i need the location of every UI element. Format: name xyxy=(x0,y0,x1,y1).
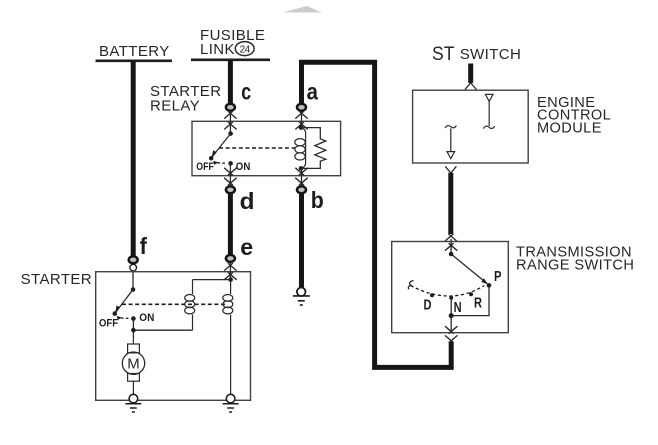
relay actuation dashed line xyxy=(219,147,296,149)
engine control module label xyxy=(537,95,611,137)
starter motor junction xyxy=(131,328,136,333)
starter actuation dashed line xyxy=(122,303,225,305)
trs switch arm to P xyxy=(451,254,491,288)
trs switch pivot xyxy=(449,239,454,256)
trs connector chevron below top edge xyxy=(445,243,457,251)
trs arc squiggle end xyxy=(408,281,413,290)
trs dashed arc xyxy=(411,286,485,297)
starter ON contact xyxy=(131,316,136,330)
relay ON contact xyxy=(228,161,233,185)
starter coil ground xyxy=(223,394,239,412)
trs wire P to N junction xyxy=(451,285,489,315)
st switch label xyxy=(432,44,521,65)
svg-text:R: R xyxy=(474,295,482,311)
wire d to e xyxy=(228,193,233,256)
battery bus bar xyxy=(96,59,173,62)
starter right coil xyxy=(223,280,233,395)
starter motor xyxy=(122,330,144,394)
trs R contact xyxy=(469,292,473,296)
svg-text:d: d xyxy=(240,188,255,214)
svg-text:e: e xyxy=(240,234,253,260)
fusible link bus bar xyxy=(191,58,270,61)
starter relay label xyxy=(150,83,221,115)
starter junction under e xyxy=(228,263,233,282)
relay switch dashed throw xyxy=(213,161,227,165)
fusible link label xyxy=(200,27,265,58)
connector e xyxy=(224,255,236,280)
starter switch pivot xyxy=(131,272,136,292)
wire st switch to ecm xyxy=(465,64,476,90)
svg-text:f: f xyxy=(140,233,147,259)
svg-text:RANGE SWITCH: RANGE SWITCH xyxy=(516,258,634,274)
svg-text:MODULE: MODULE xyxy=(537,120,602,136)
svg-text:P: P xyxy=(494,269,502,285)
starter box xyxy=(96,272,251,401)
wire battery to node f xyxy=(131,61,136,257)
relay switch arm xyxy=(209,134,231,161)
svg-text:ON: ON xyxy=(236,161,251,173)
starter relay box xyxy=(192,121,341,175)
svg-text:OFF: OFF xyxy=(196,161,214,173)
relay coil xyxy=(295,112,306,186)
trs N contact xyxy=(449,296,453,300)
trs bottom chevrons xyxy=(445,326,457,343)
ground b xyxy=(293,288,310,306)
connector c xyxy=(224,104,236,130)
engine control module box xyxy=(413,90,529,163)
svg-text:b: b xyxy=(311,187,324,213)
starter wire on-contact to coil xyxy=(133,329,192,331)
connector f xyxy=(129,256,138,271)
connector a xyxy=(295,104,307,130)
svg-text:LINK: LINK xyxy=(200,41,235,58)
svg-text:STARTER: STARTER xyxy=(21,271,92,288)
svg-text:c: c xyxy=(241,79,251,105)
connector d xyxy=(224,168,236,194)
svg-text:BATTERY: BATTERY xyxy=(99,43,170,60)
relay resistor xyxy=(301,128,326,169)
wire fusible link to node c xyxy=(228,60,233,104)
starter switch arm xyxy=(113,290,134,316)
svg-text:D: D xyxy=(424,297,432,313)
wire ecm to transmission range switch xyxy=(445,166,457,241)
svg-text:a: a xyxy=(307,78,319,104)
starter switch dashed throw xyxy=(117,316,131,320)
starter coil bridge wire xyxy=(193,279,231,281)
svg-text:N: N xyxy=(454,300,462,316)
svg-text:RELAY: RELAY xyxy=(150,98,200,115)
trs N junction xyxy=(449,298,454,333)
ecm output symbol xyxy=(445,126,456,159)
wire b to ground xyxy=(299,193,304,289)
starter motor ground xyxy=(125,394,141,412)
svg-text:24: 24 xyxy=(240,44,251,55)
transmission range switch label xyxy=(516,245,634,274)
svg-text:M: M xyxy=(127,356,140,373)
trs D contact xyxy=(430,293,434,297)
svg-text:OFF: OFF xyxy=(99,318,118,330)
svg-text:ST: ST xyxy=(432,44,455,65)
svg-text:ON: ON xyxy=(139,312,154,324)
wire a to transmission range switch xyxy=(302,62,452,367)
relay switch pivot xyxy=(228,112,233,136)
svg-text:SWITCH: SWITCH xyxy=(460,46,522,63)
transmission range switch box xyxy=(392,242,509,333)
connector b xyxy=(295,168,307,194)
ecm input symbol xyxy=(483,94,494,128)
starter left coil xyxy=(185,280,195,331)
